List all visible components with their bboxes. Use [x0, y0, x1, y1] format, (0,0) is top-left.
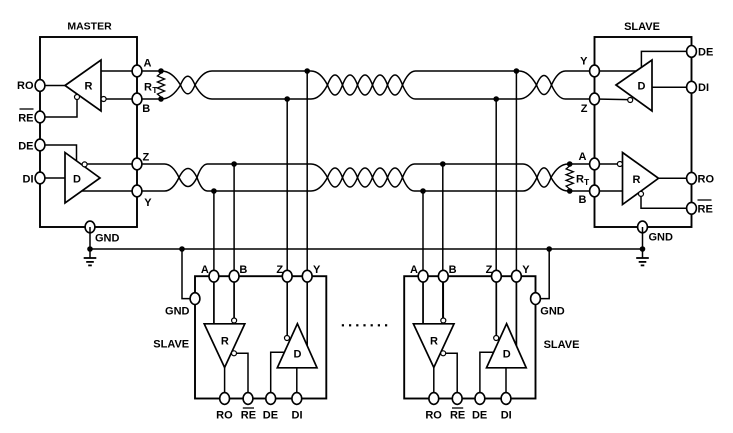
- svg-text:SLAVE: SLAVE: [624, 21, 660, 33]
- svg-text:RE: RE: [241, 410, 256, 422]
- wire A (master R input A from pin A): [101, 70, 138, 72]
- wire Z (twisted pair bottom channel, wire from master Z to slave A): [137, 164, 595, 187]
- pin RE (bottom slave 1): [243, 393, 253, 405]
- svg-text:MASTER: MASTER: [67, 21, 112, 33]
- wire Z (master driver inverting output to pin Z): [87, 163, 138, 165]
- wire Y (twisted pair bottom channel, wire from master Y to slave B): [137, 168, 595, 191]
- svg-text:Z: Z: [486, 264, 493, 276]
- pin B (slave right): [590, 185, 600, 197]
- svg-text:DE: DE: [698, 47, 713, 59]
- svg-text:R: R: [633, 174, 641, 186]
- pin Y (slave right): [590, 65, 600, 77]
- svg-text:D: D: [294, 349, 302, 361]
- svg-text:Y: Y: [522, 264, 530, 276]
- svg-text:DI: DI: [23, 174, 34, 186]
- node bottom slave 1 ground junction: [179, 246, 185, 252]
- pin A (bottom slave 1): [209, 270, 219, 282]
- pin DE (bottom slave 2): [475, 393, 485, 405]
- wire slave GND stub: [642, 227, 644, 258]
- node A-RT junction (slave side): [567, 161, 573, 167]
- node slave ground junction: [640, 246, 646, 252]
- pin DE (slave right): [687, 46, 697, 58]
- ground (master): [84, 258, 97, 265]
- inverting bubble on B input (bottom slave 2): [441, 318, 446, 323]
- svg-text:RE: RE: [698, 204, 713, 216]
- svg-text:DI: DI: [698, 82, 709, 94]
- pin B (master): [132, 93, 142, 105]
- pin GND (bottom slave 1): [190, 293, 200, 305]
- node slave2 Y tap junction: [514, 68, 520, 74]
- wire Y (slave D output to pin Y): [595, 70, 637, 72]
- svg-text:R: R: [576, 174, 584, 186]
- wire Z input (bottom slave 2): [495, 276, 497, 335]
- pin DI (bottom slave 1): [292, 393, 302, 405]
- wire Z (slave D inverting output to pin Z): [595, 98, 628, 101]
- pin Z (slave right): [590, 93, 600, 105]
- op-amp R (slave receiver triangle): [623, 153, 659, 205]
- pin A (bottom slave 2): [418, 270, 428, 282]
- transceiver SLAVE box (bottom 2): [404, 276, 535, 398]
- wire RE (master receiver enable): [40, 100, 77, 117]
- resistor RT (master side termination across A-B): [157, 71, 164, 99]
- pin GND (master): [85, 221, 95, 233]
- wire DI (slave driver input): [652, 86, 692, 88]
- node slave2 A tap junction: [420, 188, 426, 194]
- wire slave1 Z tap: [286, 99, 288, 336]
- ground (slave): [636, 258, 649, 265]
- wire DE (bottom slave 1): [271, 352, 285, 398]
- svg-text:A: A: [144, 58, 152, 70]
- wire slave1 B tap: [233, 164, 235, 318]
- pin Y (bottom slave 1): [302, 270, 312, 282]
- node slave2 B tap junction: [440, 161, 446, 167]
- svg-text:Y: Y: [144, 197, 152, 209]
- svg-text:RE: RE: [450, 410, 465, 422]
- svg-text:GND: GND: [540, 306, 565, 318]
- svg-text:GND: GND: [95, 233, 120, 245]
- wire slave1 Y tap: [306, 71, 308, 346]
- svg-text:Z: Z: [143, 152, 150, 164]
- transceiver SLAVE box (right): [595, 37, 692, 227]
- node bottom slave 2 ground junction: [546, 246, 552, 252]
- node B-RT junction (slave side): [567, 188, 573, 194]
- pin DI (master): [35, 172, 45, 184]
- svg-text:RO: RO: [17, 80, 34, 92]
- pin DI (bottom slave 2): [501, 393, 511, 405]
- wire slave1 A tap: [213, 191, 215, 324]
- node slave2 Z tap junction: [493, 96, 499, 102]
- transceiver SLAVE box (bottom 1): [195, 276, 326, 398]
- svg-text:Z: Z: [276, 264, 283, 276]
- wire B (master R inverting input from pin B): [106, 98, 138, 100]
- inverting bubble on master R enable: [75, 95, 80, 100]
- svg-text:RO: RO: [698, 174, 715, 186]
- svg-text:Y: Y: [313, 264, 321, 276]
- pin GND (slave right): [638, 221, 648, 233]
- svg-text:A: A: [201, 264, 209, 276]
- pin RE (slave right): [687, 202, 697, 214]
- wire slave2 A tap: [422, 191, 424, 324]
- pin A (slave right): [590, 158, 600, 170]
- svg-text:RE: RE: [18, 113, 33, 125]
- wire B (slave R input from pin B): [595, 190, 623, 192]
- wire GND link (bottom slave 2): [536, 249, 550, 299]
- node separator dots (ellipsis between bottom slaves): [342, 324, 387, 326]
- node slave1 Y tap junction: [304, 68, 310, 74]
- pin RO (slave right): [687, 172, 697, 184]
- pin RE (master): [35, 111, 45, 123]
- wire Y input (bottom slave 2): [515, 276, 517, 346]
- pin Z (bottom slave 1): [282, 270, 292, 282]
- wire DE (bottom slave 2): [480, 352, 494, 398]
- svg-text:R: R: [221, 336, 229, 348]
- svg-text:B: B: [142, 103, 150, 115]
- op-amp D (slave driver triangle): [616, 60, 652, 111]
- op-amp R (bottom slave 1 receiver, points down): [204, 324, 245, 368]
- node master ground junction: [87, 246, 93, 252]
- wire RE (bottom slave 2): [443, 353, 457, 398]
- wire RO (slave R output to pin RO): [659, 177, 692, 179]
- wire RE (bottom slave 1): [234, 353, 248, 398]
- inverting bubble on slave D output Z: [628, 98, 633, 103]
- svg-text:D: D: [503, 349, 511, 361]
- wire DI (master driver input): [40, 177, 65, 179]
- wire RO (bottom slave 1): [224, 368, 226, 399]
- inverting bubble on Z input (bottom slave 2): [494, 336, 499, 341]
- pin RE (bottom slave 2): [452, 393, 462, 405]
- wire DE (master driver enable): [40, 145, 77, 161]
- pin DI (slave right): [687, 81, 697, 93]
- svg-text:T: T: [152, 85, 158, 95]
- pin Y (master): [132, 185, 142, 197]
- node slave1 B tap junction: [231, 161, 237, 167]
- wire DE (slave driver enable): [641, 51, 691, 67]
- wire master GND stub: [89, 227, 91, 258]
- svg-text:Z: Z: [581, 103, 588, 115]
- pin RO (master): [35, 80, 45, 92]
- pin RO (bottom slave 1): [220, 393, 230, 405]
- svg-text:DE: DE: [263, 410, 278, 422]
- wire RO (bottom slave 2): [433, 368, 435, 399]
- wire DI (bottom slave 2): [505, 368, 507, 399]
- pin B (bottom slave 2): [438, 270, 448, 282]
- wire RE (slave receiver enable): [641, 196, 692, 208]
- svg-text:GND: GND: [649, 232, 674, 244]
- svg-text:T: T: [584, 177, 590, 187]
- svg-text:GND: GND: [165, 306, 190, 318]
- inverting bubble on R enable (bottom slave 2): [441, 351, 446, 356]
- wire B (twisted pair top channel, wire from master B to slave Z): [137, 75, 595, 99]
- pin A (master): [132, 65, 142, 77]
- wire Z input (bottom slave 1): [286, 276, 288, 335]
- wire B input (bottom slave 1): [233, 276, 235, 318]
- wire Y (master driver output to pin Y): [82, 190, 138, 192]
- svg-text:D: D: [638, 81, 646, 93]
- op-amp R (master receiver triangle): [65, 60, 101, 111]
- node slave1 A tap junction: [211, 188, 217, 194]
- wire DI (bottom slave 1): [296, 368, 298, 399]
- svg-text:A: A: [410, 264, 418, 276]
- svg-text:B: B: [449, 264, 457, 276]
- op-amp R (bottom slave 2 receiver, points down): [413, 324, 454, 368]
- wire A (slave R inverting input from pin A): [595, 163, 618, 165]
- pin DE (bottom slave 1): [266, 393, 276, 405]
- pin Z (bottom slave 2): [492, 270, 502, 282]
- svg-text:R: R: [430, 336, 438, 348]
- pin GND (bottom slave 2): [531, 293, 541, 305]
- wire Y input (bottom slave 1): [306, 276, 308, 346]
- resistor RT (slave side termination across A-B): [566, 164, 573, 191]
- wire RO (master R output to RO pin): [40, 85, 65, 87]
- svg-text:B: B: [239, 264, 247, 276]
- svg-text:DE: DE: [472, 410, 487, 422]
- svg-text:DI: DI: [501, 410, 512, 422]
- svg-text:R: R: [144, 82, 152, 94]
- inverting bubble on R enable (bottom slave 1): [232, 351, 237, 356]
- inverting bubble on slave R enable: [639, 191, 644, 196]
- inverting bubble on slave R input A: [617, 162, 622, 167]
- wire ground bus: [90, 248, 643, 250]
- inverting bubble on master D output Z: [82, 162, 87, 167]
- node B-RT junction (master side): [158, 96, 164, 102]
- svg-text:B: B: [579, 194, 587, 206]
- pin B (bottom slave 1): [229, 270, 239, 282]
- pin RO (bottom slave 2): [429, 393, 439, 405]
- wire A input (bottom slave 2): [422, 276, 424, 324]
- svg-text:SLAVE: SLAVE: [153, 339, 189, 351]
- op-amp D (bottom slave 1 driver, points up): [277, 324, 317, 368]
- svg-text:R: R: [85, 81, 93, 93]
- node slave1 Z tap junction: [284, 96, 290, 102]
- wire slave2 B tap: [442, 164, 444, 318]
- svg-text:D: D: [73, 174, 81, 186]
- svg-text:DI: DI: [292, 410, 303, 422]
- svg-text:RO: RO: [425, 410, 442, 422]
- wire B input (bottom slave 2): [442, 276, 444, 318]
- pin DE (master): [35, 139, 45, 151]
- svg-text:SLAVE: SLAVE: [544, 339, 580, 351]
- node A-RT junction (master side): [158, 68, 164, 74]
- pin Z (master): [132, 158, 142, 170]
- svg-text:DE: DE: [18, 141, 33, 153]
- wire slave2 Y tap: [515, 71, 517, 346]
- svg-text:A: A: [579, 151, 587, 163]
- op-amp D (master driver triangle): [65, 153, 100, 204]
- wire A input (bottom slave 1): [213, 276, 215, 324]
- transceiver MASTER box: [40, 37, 137, 227]
- pin Y (bottom slave 2): [512, 270, 522, 282]
- inverting bubble on B input (bottom slave 1): [232, 318, 237, 323]
- op-amp D (bottom slave 2 driver, points up): [487, 324, 527, 368]
- inverting bubble on Z input (bottom slave 1): [285, 336, 290, 341]
- wire GND link (bottom slave 1): [182, 249, 195, 299]
- svg-text:Y: Y: [580, 56, 588, 68]
- inverting bubble on master R input B: [101, 97, 106, 102]
- svg-text:RO: RO: [216, 410, 233, 422]
- wire slave2 Z tap: [495, 99, 497, 336]
- wire A (twisted pair top channel, wire from master A to slave Y): [137, 71, 595, 95]
